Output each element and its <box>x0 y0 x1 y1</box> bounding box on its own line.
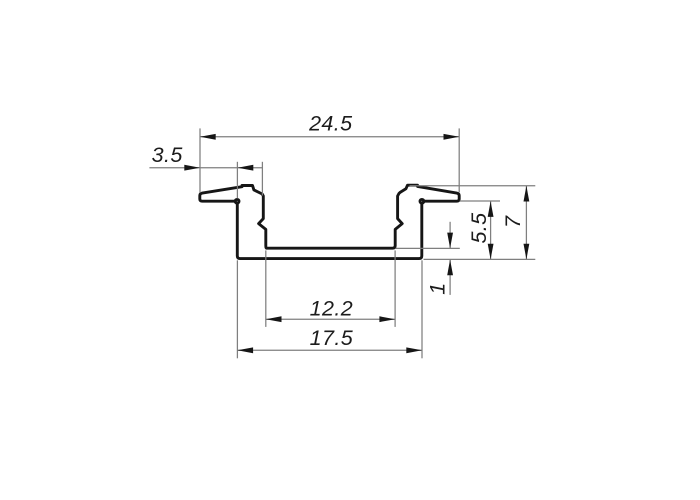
dimension 1 line <box>449 222 451 295</box>
ext line left inner wall lower x=265.8 <box>265 250 267 327</box>
dimension 1 arrows <box>447 233 453 276</box>
svg-text:3.5: 3.5 <box>152 143 184 167</box>
ref line top of flange y=185.7 <box>410 185 536 187</box>
left flange inner corner knob <box>235 199 239 203</box>
svg-text:7: 7 <box>501 215 525 228</box>
svg-text:1: 1 <box>426 282 450 294</box>
ref line outer bottom y=259.4 <box>424 258 536 260</box>
ext line left wall outer lower x=237.4 <box>236 260 238 358</box>
dimension 7 arrows <box>524 186 530 260</box>
dimension 3.5 arrows <box>184 165 253 171</box>
dimension 17.5 arrows <box>237 347 422 353</box>
dimension 5.5 line <box>490 201 492 259</box>
ext line left wall outer upper x=237.4 <box>236 162 238 199</box>
ext line right inner wall lower x=395.1 <box>394 250 396 327</box>
ext line left inner wall upper x=262.4 <box>261 162 263 196</box>
ext line left outer tip x=200 <box>199 128 201 192</box>
profile outline <box>200 185 459 258</box>
dimension 24.5 arrows <box>200 134 459 140</box>
dimension 7 line <box>525 186 527 260</box>
dimension 5.5 arrows <box>488 201 494 259</box>
svg-text:17.5: 17.5 <box>310 326 354 350</box>
ext line right wall outer lower x=422 <box>421 260 423 358</box>
dimension 12.2 line <box>266 318 395 320</box>
ref line flange underside y=201.2 <box>460 200 500 202</box>
svg-text:24.5: 24.5 <box>308 112 353 136</box>
dimension 17.5 line <box>237 349 422 351</box>
dimension 3.5 line <box>149 167 263 169</box>
dimension 12.2 arrows <box>266 316 395 322</box>
svg-text:5.5: 5.5 <box>467 212 491 244</box>
ref line inner bottom y=248.4 <box>396 247 460 249</box>
svg-text:12.2: 12.2 <box>310 297 353 321</box>
dimension 24.5 line <box>200 136 459 138</box>
extension lines (thin) <box>200 128 535 358</box>
right flange inner corner knob <box>420 199 424 203</box>
ext line right outer tip x=459.2 <box>458 128 460 192</box>
